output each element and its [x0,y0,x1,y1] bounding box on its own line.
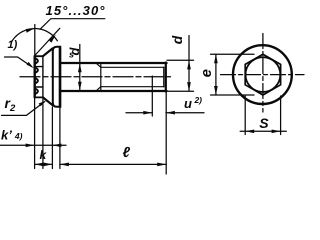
hex chamfer arc 1 [35,58,38,64]
extension line rim down [51,107,53,169]
svg-text:15°...30°: 15°...30° [46,3,106,18]
angle extension vertical line [34,25,36,56]
svg-text:S: S [259,115,269,131]
hex outer face of head [34,56,36,97]
dimension e arrow up [214,54,218,63]
dimension k' arrow left [52,143,61,147]
svg-text:e: e [198,69,215,77]
dimension k arrow right [43,163,52,167]
extension line screw end down [165,92,167,175]
dimension s arrow right [272,129,281,133]
thread start boundary [100,64,102,91]
angle reference diagonal line [35,28,60,55]
dimension u line left [126,112,152,114]
thread runout line [151,76,153,116]
hex facet line upper [35,66,43,68]
extension line bearing face down [59,107,61,169]
svg-text:k’4): k’4) [1,128,23,143]
dimension s line [240,130,286,132]
flange cone top line [43,48,53,56]
dimension s extension right [280,96,282,135]
svg-text:r2: r2 [5,95,16,114]
svg-text:ℓ: ℓ [123,145,131,161]
hex bottom face line [35,96,43,98]
hex chamfer arc 4 [35,89,38,95]
svg-text:1): 1) [8,39,18,51]
dimension d line [188,36,190,92]
screw end face [165,63,167,92]
svg-text:k: k [40,148,48,162]
dimension e arrow down [214,86,218,95]
leader line for r2 [2,102,45,116]
flange cone bottom line [43,97,53,105]
end view vertical centerline [262,34,264,113]
thread start chamfer top [96,63,101,67]
dimension ds arrow down [78,82,82,91]
dimension k line [35,163,53,165]
dimension e extension bottom [211,94,255,96]
hex to cone boundary [42,56,44,97]
hex top face line [35,55,43,57]
hex chamfer arc 3 [35,78,38,83]
dimension s extension left [244,96,246,135]
dimension l arrow left [60,163,69,167]
dimension d extension top [167,59,194,61]
hex facet line lower [35,86,43,88]
screw end chamfer circle edge [163,67,165,86]
angle dimension arc [11,29,57,43]
extension line hex cone down [42,99,44,169]
dimension u arrow left [166,111,175,115]
dimension e line [215,54,217,95]
extension line hex face down [34,98,36,169]
angle arc arrow at diagonal [49,35,56,43]
wire centerline of screw axis [20,76,171,78]
flange rim of head [53,47,61,107]
dimension s arrow left [245,129,254,133]
svg-text:u2): u2) [184,95,202,111]
hex chamfer arc 2 [35,67,38,73]
shank major diameter top line [60,62,167,64]
dimension k arrow left [35,163,44,167]
dimension k' arrow right [26,143,35,147]
leader line for note 1 [5,57,32,67]
dimension ds line [79,45,81,91]
leader arrow for r2 [39,101,47,107]
shank major diameter bottom line [60,90,167,92]
flange outer circle [233,45,292,104]
dimension u line right [166,112,204,114]
bearing face of head [59,48,61,106]
dimension ds arrow up [78,63,82,72]
dimension l arrow right [157,163,166,167]
hexagon of head [245,54,280,95]
leader arrow for note 1 [27,62,34,68]
dimension k' line [0,144,66,146]
end view horizontal centerline [221,74,305,76]
svg-text:d: d [169,35,185,44]
dimension d extension bottom [167,90,194,92]
thread start chamfer bottom [96,87,101,91]
dimension d arrow down [187,82,191,91]
dimension e extension top [211,53,255,55]
leader line for angle text [40,19,105,30]
dimension l line [60,163,166,165]
svg-text:s: s [69,50,74,60]
dimension d arrow up [187,60,191,69]
hex chamfer circle [246,57,281,92]
thread minor diameter top line [101,66,164,68]
angle arc arrow at vertical [26,28,35,33]
dimension u arrow right [143,111,152,115]
thread minor diameter bottom line [101,86,164,88]
